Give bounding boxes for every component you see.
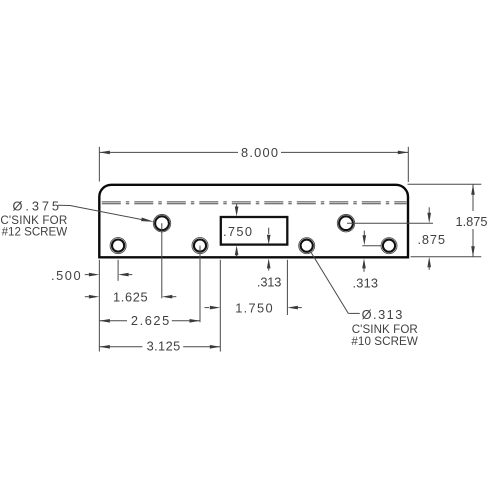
dimension .313 left [257,228,282,290]
svg-text:.875: .875 [418,232,446,247]
centerline [102,202,407,204]
hole B2 countersunk Ø.375 right [337,215,354,232]
svg-text:#12 SCREW: #12 SCREW [2,225,68,238]
dimension 3.125 [99,260,220,354]
svg-text:1.750: 1.750 [235,301,272,316]
svg-text:8.000: 8.000 [241,145,278,160]
leader note Ø.375 C'SINK FOR #12 SCREW [0,199,154,239]
leader note Ø.313 C'SINK FOR #10 SCREW [311,252,418,348]
svg-text:.500: .500 [51,268,81,283]
dimension 1.625 [85,223,177,305]
dimension 1.875 [408,184,488,257]
dimension .750 [223,204,252,256]
svg-text:2.625: 2.625 [131,313,169,328]
svg-text:.750: .750 [223,224,252,239]
hole B1 countersunk Ø.375 left [153,215,170,232]
dimension .875 [347,207,445,269]
hole S2 Ø.313 [192,238,208,254]
dimension 8.000 [99,145,408,182]
dimension .500 [51,260,132,283]
svg-text:1.875: 1.875 [456,214,488,229]
svg-text:.313: .313 [257,275,282,290]
svg-text:Ø.313: Ø.313 [362,307,403,322]
svg-text:Ø.375: Ø.375 [13,199,60,214]
svg-text:#10 SCREW: #10 SCREW [351,335,417,348]
svg-text:1.625: 1.625 [113,290,148,305]
dimension .313 right [353,231,382,291]
dimension 1.750 [205,260,302,316]
hole S3 Ø.313 [299,238,315,254]
hole S4 Ø.313 [381,238,397,254]
dimension 2.625 [99,246,200,329]
cutout slot rectangle [221,217,287,245]
part outline [99,185,408,257]
svg-text:.313: .313 [353,276,379,291]
hole S1 Ø.313 [110,238,126,254]
svg-text:3.125: 3.125 [147,339,181,354]
